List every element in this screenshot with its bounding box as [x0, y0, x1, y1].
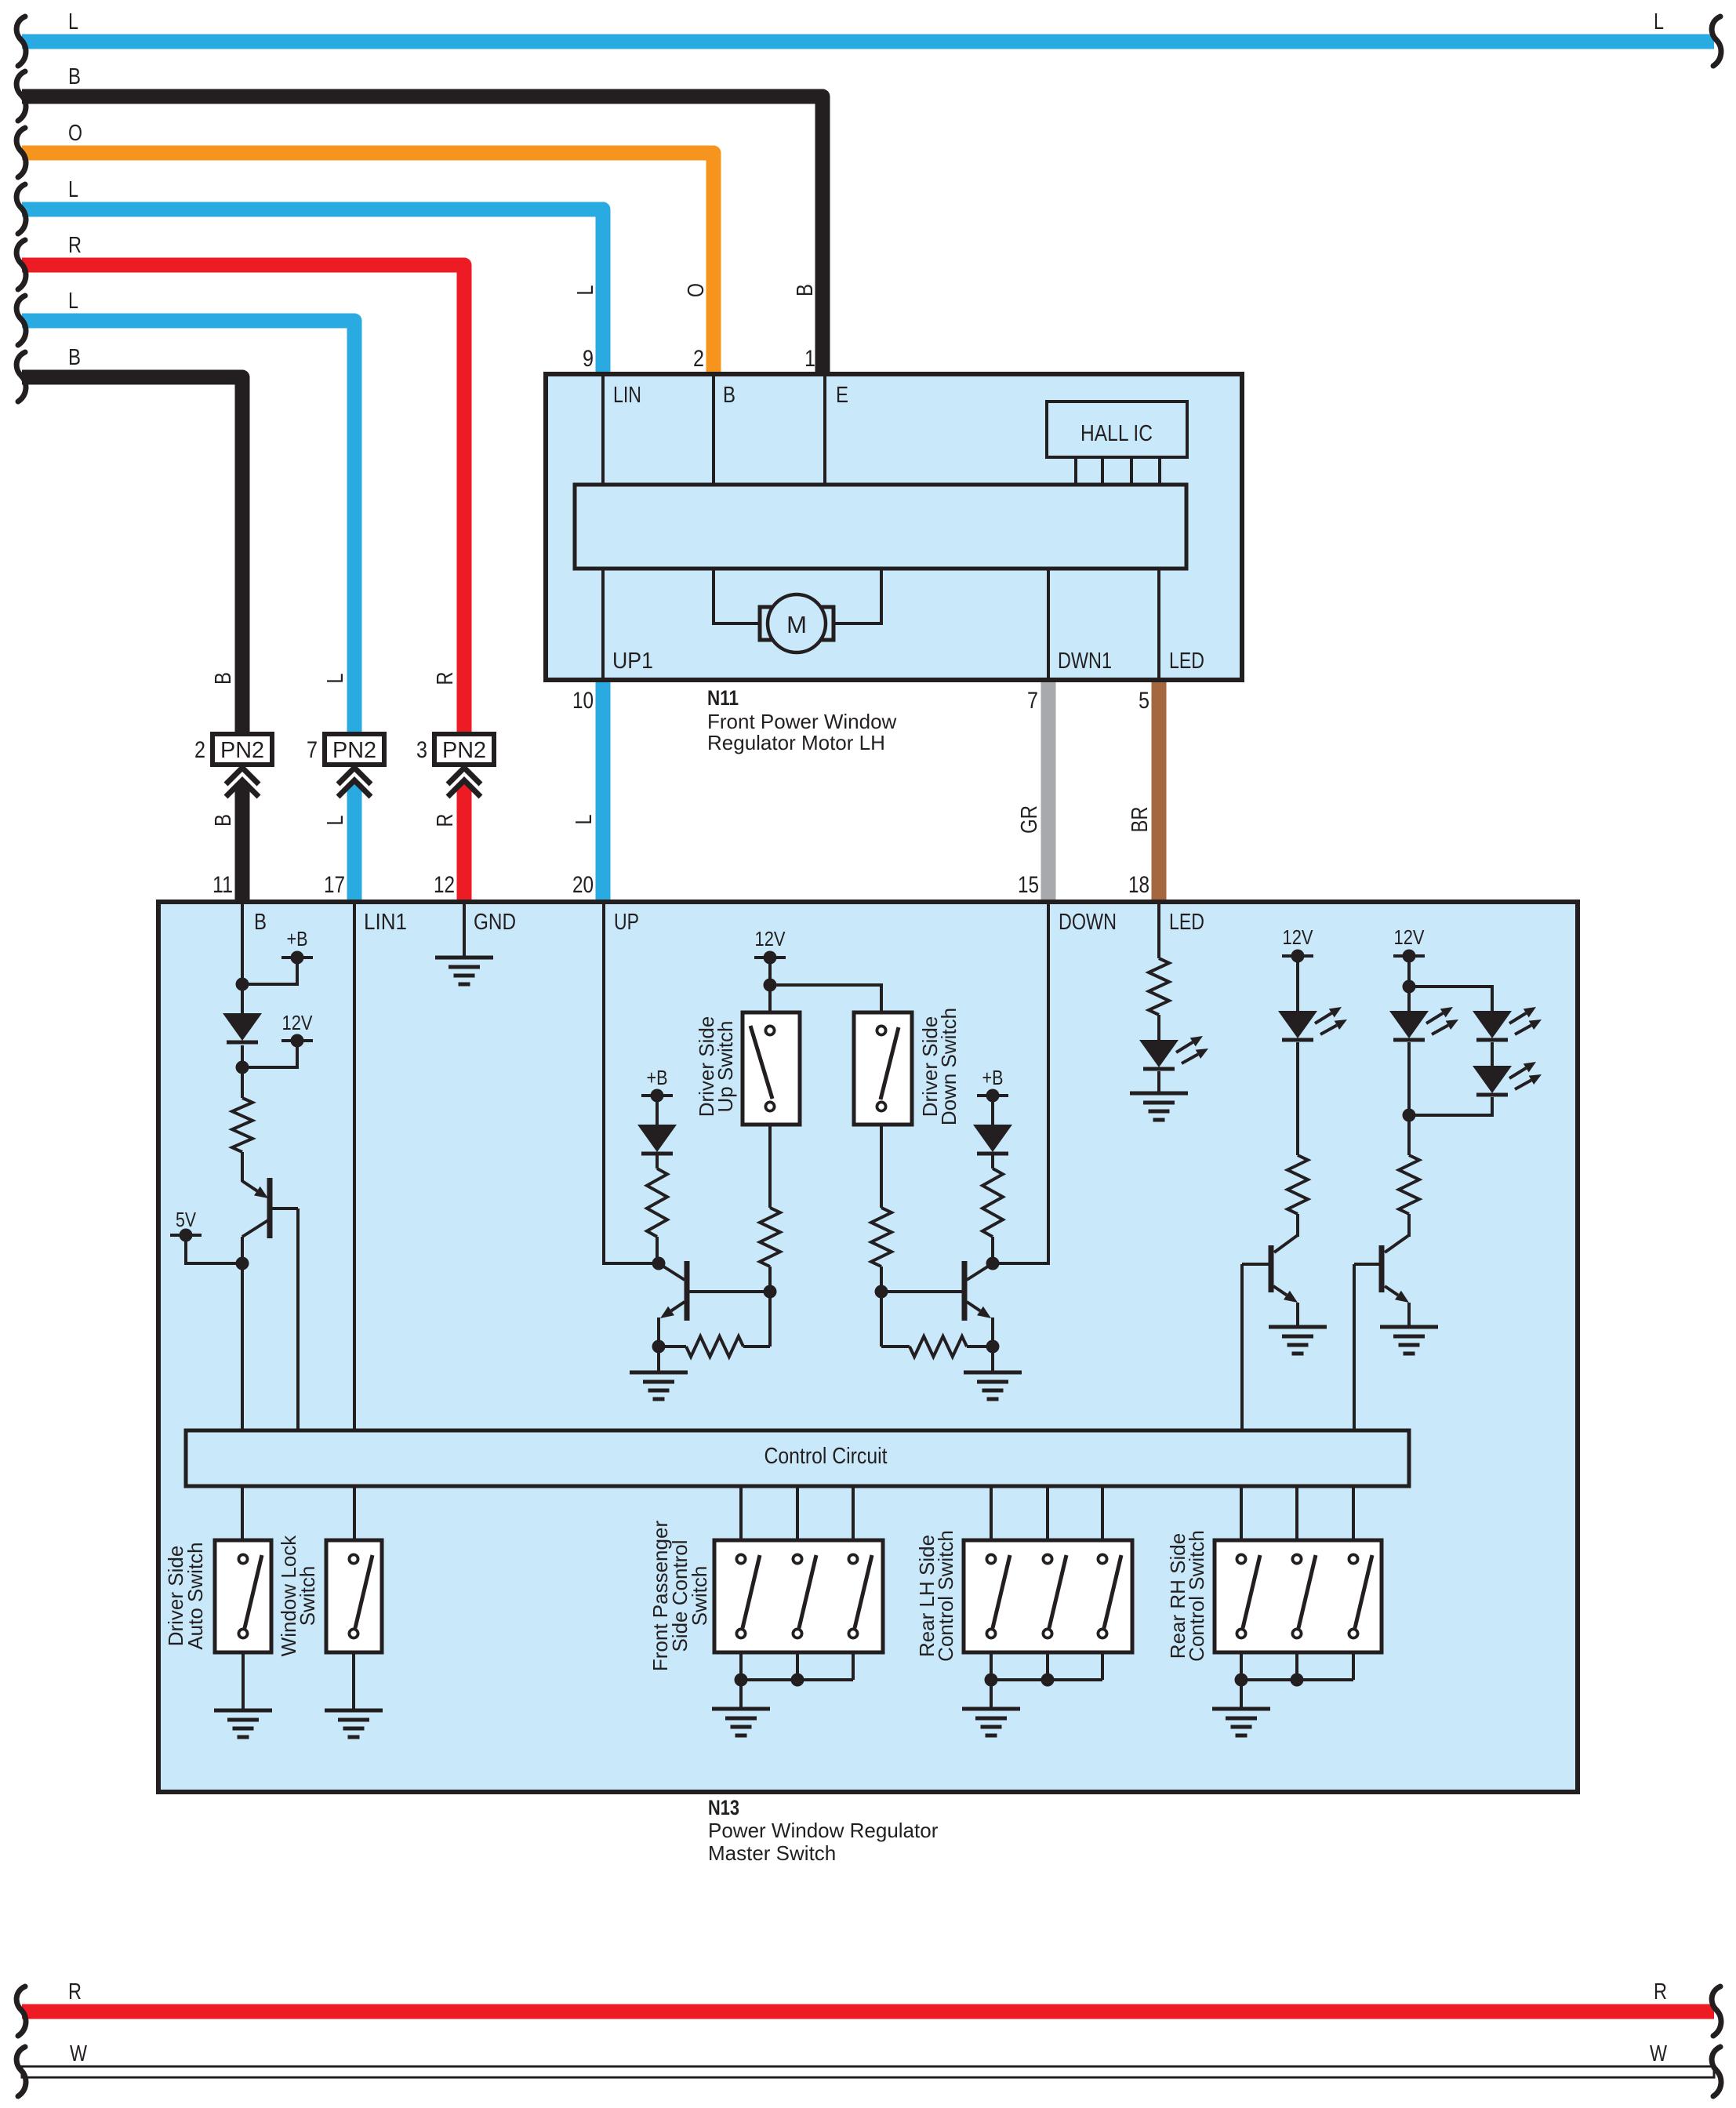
svg-text:2: 2	[194, 737, 205, 763]
svg-text:O: O	[68, 121, 82, 146]
svg-text:R: R	[68, 1979, 82, 2004]
svg-text:15: 15	[1018, 872, 1039, 898]
svg-text:L: L	[68, 9, 78, 35]
svg-text:HALL IC: HALL IC	[1080, 421, 1153, 446]
svg-text:+B: +B	[647, 1066, 668, 1089]
svg-text:B: B	[211, 814, 236, 827]
svg-text:5: 5	[1139, 688, 1149, 714]
svg-text:PN2: PN2	[332, 738, 376, 763]
svg-text:LED: LED	[1169, 649, 1204, 674]
svg-text:Control Switch: Control Switch	[934, 1530, 957, 1662]
svg-text:Power Window Regulator: Power Window Regulator	[708, 1819, 939, 1842]
svg-text:Front Power Window: Front Power Window	[707, 710, 897, 733]
svg-text:B: B	[68, 64, 81, 89]
svg-text:L: L	[68, 289, 78, 314]
svg-text:12V: 12V	[1283, 925, 1314, 949]
svg-text:10: 10	[572, 688, 594, 714]
svg-text:12V: 12V	[1394, 925, 1425, 949]
svg-text:BR: BR	[1128, 807, 1153, 833]
svg-text:Control Circuit: Control Circuit	[764, 1444, 888, 1469]
svg-text:LIN: LIN	[613, 383, 641, 408]
svg-text:N11: N11	[707, 686, 739, 710]
svg-text:Auto Switch: Auto Switch	[183, 1542, 207, 1649]
svg-text:UP1: UP1	[612, 649, 653, 674]
svg-text:L: L	[572, 815, 597, 825]
svg-text:L: L	[1654, 9, 1664, 35]
svg-text:Master Switch: Master Switch	[708, 1841, 836, 1865]
svg-text:W: W	[70, 2041, 88, 2066]
svg-text:DWN1: DWN1	[1058, 649, 1112, 674]
svg-text:LED: LED	[1169, 910, 1204, 935]
svg-text:20: 20	[572, 872, 594, 898]
svg-text:R: R	[433, 814, 458, 827]
svg-text:DOWN: DOWN	[1059, 910, 1117, 935]
svg-text:GR: GR	[1017, 805, 1042, 834]
svg-text:11: 11	[212, 872, 233, 898]
svg-text:17: 17	[324, 872, 345, 898]
svg-text:R: R	[433, 672, 458, 685]
svg-text:B: B	[793, 284, 818, 296]
svg-text:B: B	[254, 910, 267, 935]
svg-text:Switch: Switch	[688, 1566, 711, 1626]
svg-text:B: B	[723, 383, 735, 408]
svg-text:9: 9	[583, 346, 594, 372]
svg-text:Regulator Motor LH: Regulator Motor LH	[707, 731, 885, 754]
svg-text:M: M	[786, 611, 807, 638]
svg-text:W: W	[1650, 2041, 1668, 2066]
svg-text:2: 2	[693, 346, 704, 372]
svg-text:E: E	[836, 383, 848, 408]
svg-text:7: 7	[307, 737, 318, 763]
svg-text:L: L	[323, 674, 348, 684]
svg-text:Down Switch: Down Switch	[937, 1008, 961, 1125]
svg-text:+B: +B	[982, 1066, 1004, 1089]
svg-text:N13: N13	[708, 1796, 739, 1819]
svg-text:L: L	[573, 285, 598, 296]
svg-text:Switch: Switch	[296, 1566, 319, 1626]
svg-text:5V: 5V	[176, 1208, 197, 1231]
svg-text:7: 7	[1027, 688, 1038, 714]
svg-text:B: B	[68, 345, 81, 370]
svg-text:O: O	[684, 283, 709, 297]
svg-text:PN2: PN2	[442, 738, 486, 763]
svg-text:PN2: PN2	[220, 738, 264, 763]
svg-text:LIN1: LIN1	[364, 910, 407, 935]
svg-text:Up Switch: Up Switch	[714, 1020, 737, 1112]
svg-text:12V: 12V	[282, 1011, 314, 1034]
svg-text:R: R	[68, 233, 82, 258]
svg-text:1: 1	[804, 346, 815, 372]
svg-text:Control Switch: Control Switch	[1185, 1530, 1208, 1662]
svg-text:UP: UP	[614, 910, 639, 935]
svg-text:R: R	[1654, 1979, 1667, 2004]
svg-text:GND: GND	[474, 910, 516, 935]
svg-text:12V: 12V	[755, 927, 786, 950]
svg-text:+B: +B	[287, 927, 308, 950]
svg-text:12: 12	[434, 872, 455, 898]
svg-text:B: B	[211, 672, 236, 685]
svg-text:L: L	[323, 816, 348, 826]
svg-text:18: 18	[1128, 872, 1149, 898]
svg-text:3: 3	[416, 737, 427, 763]
svg-text:L: L	[68, 177, 78, 202]
